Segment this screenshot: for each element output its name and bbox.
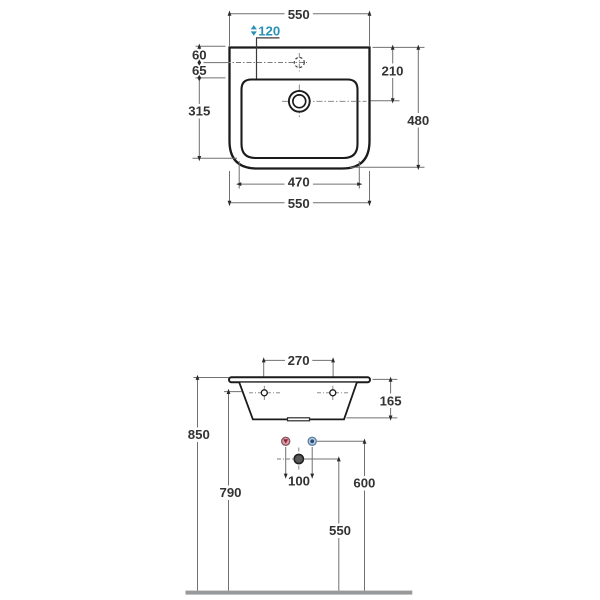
svg-text:165: 165: [380, 393, 402, 408]
dimension 470 arrows: [236, 182, 241, 186]
drain recess (front view): [288, 418, 310, 421]
dimension 600: line: [364, 441, 366, 476]
dimension 470: extension lines: [238, 161, 240, 189]
floor line: [186, 591, 413, 595]
dimension 315: line: [198, 78, 200, 104]
cold water symbol (blue): [308, 437, 316, 445]
dimension 550 (front) arrow: [337, 456, 341, 461]
drain centerline vertical: [298, 85, 300, 118]
svg-text:210: 210: [381, 63, 403, 78]
basin body trapezoid (front view): [239, 383, 356, 420]
basin outer outline (top view): [230, 48, 370, 169]
dimension 270 up arrows: [262, 357, 266, 362]
mounting hole left: [261, 390, 267, 396]
dimension 550 (bottom): line: [230, 202, 285, 204]
faucet hole (dashed circle): [294, 58, 304, 68]
drain centerline horizontal: [282, 100, 367, 102]
left dimension arrows: [197, 44, 201, 49]
dimension 210 (right): extension lines: [373, 46, 425, 48]
faucet hole centerline horizontal: [226, 62, 308, 64]
svg-text:270: 270: [288, 353, 310, 368]
dimension 470: line: [239, 183, 284, 185]
svg-text:550: 550: [288, 7, 310, 22]
svg-text:600: 600: [353, 476, 375, 491]
dimension 65: line stubs: [198, 63, 200, 65]
dimension 480 arrows: [416, 45, 420, 50]
svg-text:550: 550: [329, 523, 351, 538]
waste pipe centerlines: [277, 458, 320, 460]
dimension 210: line: [392, 47, 394, 63]
svg-text:100: 100: [288, 474, 310, 489]
waste pipe (filled circle): [294, 454, 303, 463]
svg-text:120: 120: [258, 23, 280, 38]
mounting hole right: [330, 390, 336, 396]
drain outer circle: [289, 91, 310, 112]
dimension 480: line: [417, 47, 419, 113]
drain inner circle: [293, 95, 306, 108]
dimension 850: line: [197, 378, 199, 428]
dimension 550 (front): line: [338, 459, 340, 524]
dimension 790: extension line: [224, 391, 242, 393]
dimension 165 arrows: [389, 377, 393, 382]
dimension 850 arrow: [196, 375, 200, 380]
faucet hole centerline vertical: [298, 53, 300, 72]
dimension 550 (bottom of top view): extension lines: [229, 171, 231, 206]
dimension 600: extension line from cold symbol: [317, 440, 365, 442]
annotation 120: leader line: [257, 38, 280, 79]
dimension 790: line: [228, 392, 230, 486]
hot water symbol (red): [282, 437, 290, 445]
dimension 850: extension line: [194, 377, 230, 379]
mounting hole left: centerlines: [249, 392, 280, 394]
dimension 550 (bottom): down arrows: [228, 201, 232, 206]
dimension 100: extension lines with down arrows: [285, 447, 287, 476]
dimension 790 arrow: [227, 389, 231, 394]
dimension 480 (right): extension line bottom: [350, 166, 425, 168]
svg-text:315: 315: [188, 104, 210, 119]
annotation 120 (blue): double-arrow symbol: [251, 25, 257, 29]
dimension 60: line stubs: [198, 46, 200, 49]
dimension 60/65/315 (left): extension lines: [196, 45, 226, 47]
dimension 165: extension lines: [373, 378, 398, 380]
dimension 165: line: [390, 379, 392, 393]
dimension 550 (top): dimension line: [230, 13, 285, 15]
dimension 600 arrow: [363, 439, 367, 444]
svg-text:850: 850: [188, 427, 210, 442]
dimension 550 (top): extension lines: [229, 15, 231, 46]
svg-text:480: 480: [407, 113, 429, 128]
svg-text:550: 550: [288, 196, 310, 211]
mounting hole right: centerlines: [317, 392, 348, 394]
inner bowl outline (top view): [242, 80, 358, 159]
dimension 270: extension lines down to holes: [263, 360, 265, 389]
dimension 550 (front): extension line from waste: [304, 458, 339, 460]
dimension 550 (top): up arrows at extension tops: [228, 11, 232, 16]
svg-text:790: 790: [219, 485, 241, 500]
basin rim (front view): [229, 377, 370, 382]
svg-text:470: 470: [288, 175, 310, 190]
dimension 210 arrows: [391, 45, 395, 50]
dimension 270: line: [264, 359, 285, 361]
